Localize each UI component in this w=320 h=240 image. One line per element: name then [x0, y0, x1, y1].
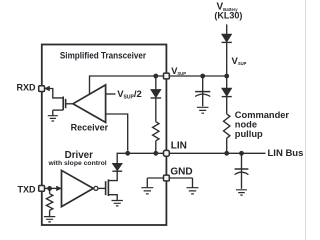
svg-text:GND: GND — [170, 167, 192, 178]
svg-text:pullup: pullup — [235, 129, 263, 139]
svg-text:node: node — [235, 119, 257, 129]
svg-text:with slope control: with slope control — [47, 160, 106, 167]
svg-text:RXD: RXD — [16, 83, 36, 93]
svg-text:Receiver: Receiver — [71, 123, 109, 133]
svg-text:VSUP: VSUP — [232, 56, 247, 67]
svg-text:(KL30): (KL30) — [214, 10, 242, 20]
svg-text:TXD: TXD — [18, 185, 37, 195]
svg-text:Simplified Transceiver: Simplified Transceiver — [60, 51, 147, 61]
svg-text:LIN: LIN — [171, 141, 187, 152]
svg-text:VSUP/2: VSUP/2 — [117, 89, 142, 101]
svg-text:VSUP: VSUP — [171, 66, 186, 76]
svg-text:LIN Bus: LIN Bus — [268, 148, 304, 159]
svg-text:Commander: Commander — [235, 110, 290, 120]
